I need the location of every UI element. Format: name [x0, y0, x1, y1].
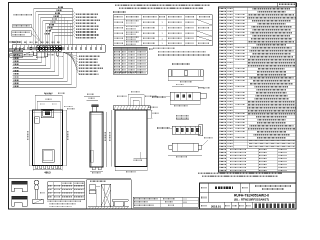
detail D2 bottom dim: [170, 103, 200, 105]
side view top stub: [92, 105, 99, 107]
accessory table A: [113, 15, 212, 46]
svg-text:466.5: 466.5: [44, 170, 51, 174]
side view body: [90, 112, 103, 167]
upper left label - header bracket text: [14, 14, 33, 16]
back view bottom dim: [115, 169, 147, 171]
top notes line 1: [115, 4, 210, 6]
front view bottom dim: [33, 169, 62, 171]
detail D2 left label: [152, 96, 166, 98]
detail E1 right cap: [199, 125, 203, 136]
title block drawing name: [215, 187, 233, 189]
front view bottom panel: [42, 150, 54, 163]
svg-text:RUFH-TE2405SAW2-6: RUFH-TE2405SAW2-6: [234, 194, 269, 198]
front view body: [33, 110, 63, 166]
installation caption: [90, 180, 106, 182]
upper left boxed label 2: [12, 31, 32, 36]
lower small labels pair: [44, 92, 53, 94]
units label box: [278, 3, 297, 7]
spec table row rules: [219, 9, 297, 11]
installation detail box: [87, 180, 132, 210]
side view bottom dim: [90, 170, 103, 172]
spec table section rules: [219, 42, 297, 44]
front view left dim: [28, 110, 30, 166]
detail E2 bottom dim: [168, 155, 202, 157]
side view inner lines: [101, 112, 103, 167]
installation right platform: [112, 200, 128, 206]
back view body: [115, 110, 147, 167]
connection table B header: [113, 47, 147, 50]
piping diagram central band: [12, 44, 105, 46]
piping connectors in band: [15, 48, 16, 49]
installation ground line: [88, 206, 129, 208]
upper right leader labels column: [76, 13, 98, 15]
svg-text:(BL : RTW218RFSSSAW2T): (BL : RTW218RFSSSAW2T): [234, 197, 269, 201]
mid notes 3 lines: [153, 47, 175, 49]
lower fan dimension figures: [14, 54, 20, 56]
title block product name: [255, 185, 291, 187]
below-band small texts: [24, 54, 33, 56]
bottom data table: [133, 197, 198, 207]
pipe detail stem: [34, 190, 36, 200]
top notes line 2: [119, 7, 203, 9]
back view right small dim: [151, 110, 153, 118]
lower dimension fan lines: [13, 55, 34, 57]
detail E caption 2 lines: [176, 115, 189, 117]
title block column rules row1: [207, 183, 209, 202]
detail E2 bar: [172, 143, 198, 151]
bottom section separator line: [9, 177, 132, 179]
installation vertical drop line: [96, 189, 98, 207]
front view right dim: [65, 110, 67, 166]
title block frame: [200, 183, 297, 209]
side view right dim: [106, 112, 108, 167]
dim figures row above band: [13, 41, 17, 43]
detail E2 right leader: [202, 140, 208, 146]
company name Rinnai bold: [255, 204, 295, 208]
table B bottom wide row text: [115, 71, 143, 73]
upper fan extension risers: [72, 9, 74, 45]
front view bottom stubs: [36, 166, 38, 169]
upper left boxed label 1: [13, 24, 32, 28]
spec table bottom notes: [198, 172, 282, 174]
detail D2 top dims: [172, 86, 196, 88]
pipe detail circles: [34, 180, 39, 185]
table B side note mark: [149, 48, 153, 50]
detail D1 caption: [172, 63, 190, 65]
lower right leader labels column: [79, 55, 100, 57]
svg-text:2018.01: 2018.01: [211, 204, 222, 208]
band measure point risers: [58, 12, 60, 45]
upper fan dimension figures: [58, 6, 64, 8]
spec table vertical rules: [226, 7, 228, 172]
pipe detail foot: [33, 199, 44, 204]
detail D1 dim: [168, 79, 203, 81]
front view right dim texts: [64, 106, 73, 108]
specification table frame: [219, 7, 297, 172]
title block scale cells: [225, 205, 230, 207]
side view bottom marks: [92, 167, 95, 170]
front view top-left box: [35, 117, 40, 124]
band lower stubs: [34, 52, 37, 55]
spec table row texts: [220, 7, 227, 9]
title block column rules row3: [223, 202, 225, 209]
detail D1 bar: [168, 70, 203, 77]
band dense center symbols: [37, 46, 40, 51]
connection table B: [113, 47, 147, 74]
bracket detail 1: [12, 181, 28, 184]
back view left dim: [111, 110, 113, 167]
table C notes: [48, 200, 82, 202]
sheet border frame: [9, 3, 297, 210]
left boxed labels near band: [10, 41, 21, 43]
title block row rules: [200, 192, 297, 194]
bottom option table C: [48, 182, 85, 200]
back view hanger strip: [113, 106, 150, 110]
detail D2 bar: [170, 92, 200, 100]
accessory table caption: [113, 11, 126, 13]
back view hanger dim stack: [128, 93, 144, 95]
detail E1 left label: [157, 127, 170, 129]
detail D2 right stub: [200, 93, 206, 98]
front view exhaust grille: [41, 109, 54, 118]
detail E1 bar: [172, 126, 200, 134]
upper dimension fan lines: [34, 8, 73, 10]
installation wall structure: [101, 184, 111, 207]
title block labels: [201, 187, 207, 189]
side view top stub dims: [84, 95, 100, 97]
installation unit boxes upper-left: [89, 185, 96, 190]
detail E2 left lower dim: [139, 152, 141, 159]
bracket detail 2: [12, 196, 28, 199]
front view top dim lines: [35, 94, 62, 96]
back view hanger labels: [117, 95, 127, 97]
front view top small marks: [40, 103, 45, 105]
spec table lower numeric split rules: [257, 148, 259, 172]
lower fan risers: [32, 52, 34, 56]
accessory table cells: [115, 21, 124, 23]
